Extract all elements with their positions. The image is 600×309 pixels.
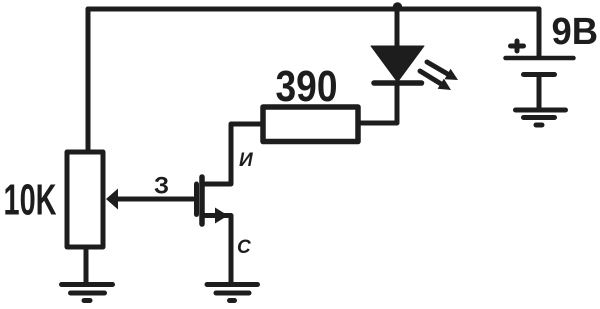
battery 9V negative plate: [524, 72, 555, 77]
wire drain lead down: [203, 216, 231, 285]
node LED anode junction: [393, 2, 403, 12]
wire potentiometer top to rail: [86, 9, 91, 152]
battery 9V positive plate: [506, 56, 574, 61]
wire V+ top rail: [88, 7, 539, 12]
svg-text:9В: 9В: [552, 11, 599, 53]
LED cathode bar: [374, 80, 422, 86]
svg-text:И: И: [239, 150, 253, 171]
wire source lead to resistor: [203, 124, 261, 184]
LED light arrow lower: [420, 71, 451, 90]
ground middle: [207, 285, 258, 301]
transistor drain arrow: [215, 208, 228, 224]
wire LED anode to rail: [395, 9, 400, 47]
LED light arrow upper: [427, 62, 458, 80]
wire potentiometer bottom to ground: [84, 247, 89, 284]
battery plus sign: [511, 41, 524, 51]
svg-text:10K: 10K: [4, 176, 57, 225]
ground battery: [516, 110, 566, 125]
LED anode triangle: [371, 46, 424, 82]
svg-text:390: 390: [276, 62, 338, 111]
wire battery positive to rail: [537, 9, 542, 56]
transistor gate bar: [194, 184, 199, 215]
svg-text:С: С: [237, 237, 251, 258]
svg-text:З: З: [154, 173, 169, 200]
wire wiper to gate: [116, 197, 193, 202]
potentiometer body 10K: [67, 152, 103, 247]
ground left: [62, 285, 113, 301]
wire resistor to LED cathode: [361, 85, 397, 123]
transistor channel bar: [199, 177, 205, 224]
wire battery negative to ground: [537, 76, 542, 108]
resistor body 390: [263, 107, 358, 142]
potentiometer wiper arrow: [106, 189, 118, 210]
